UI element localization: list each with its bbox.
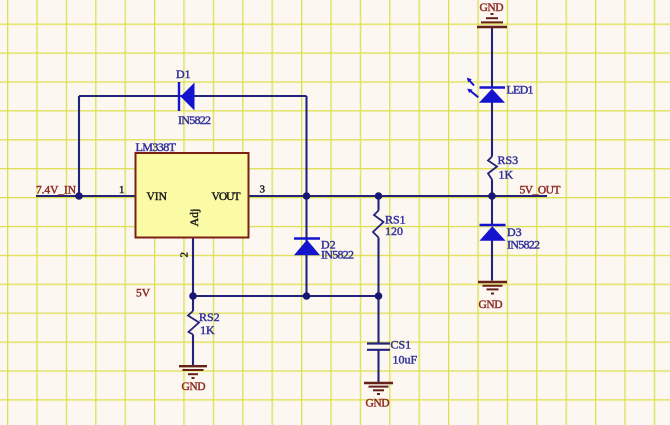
junction node at 7.4V input	[75, 192, 83, 200]
svg-text:120: 120	[385, 224, 403, 238]
svg-text:10uF: 10uF	[393, 353, 418, 367]
wire D3 to ground	[491, 241, 493, 281]
wire LED1 to RS3	[491, 103, 493, 157]
svg-text:IN5822: IN5822	[507, 238, 540, 252]
wire RS1 bottom stub	[377, 238, 379, 297]
LED1	[467, 78, 534, 103]
svg-text:LM338T: LM338T	[136, 140, 177, 154]
svg-text:7.4V_IN: 7.4V_IN	[36, 185, 77, 197]
wire top ground to LED1	[491, 28, 493, 88]
wire RS1 top stub	[377, 196, 379, 211]
svg-text:GND: GND	[366, 398, 390, 410]
wire D1 loop right vertical	[305, 96, 307, 196]
resistor RS2	[188, 310, 220, 337]
svg-text:Adj: Adj	[187, 209, 201, 227]
svg-text:3: 3	[260, 184, 266, 196]
wire D1 loop left vertical	[78, 96, 80, 196]
svg-text:VIN: VIN	[147, 191, 168, 203]
junction node D2 bottom	[303, 292, 311, 300]
junction node Adj / RS2	[189, 292, 197, 300]
svg-text:VOUT: VOUT	[212, 191, 241, 203]
svg-text:5V: 5V	[136, 288, 151, 300]
svg-text:5V_OUT: 5V_OUT	[520, 185, 561, 197]
regulator U1 LM338T body	[136, 140, 249, 238]
svg-text:LED1: LED1	[507, 83, 534, 97]
wire D1 loop top horizontal	[79, 95, 307, 97]
wire main horizontal output segment	[249, 195, 548, 197]
wire output node to D3	[491, 196, 493, 225]
svg-text:1K: 1K	[200, 323, 215, 337]
wire Adj pin 2 vertical	[192, 238, 194, 297]
svg-text:GND: GND	[479, 299, 503, 311]
wire main horizontal input segment	[36, 195, 136, 197]
svg-text:D1: D1	[176, 67, 191, 81]
junction node RS1 top	[375, 192, 383, 200]
svg-text:RS3: RS3	[498, 153, 519, 167]
diode D3	[480, 225, 541, 252]
wire CS1 top stub	[377, 296, 379, 343]
resistor RS3	[488, 153, 518, 182]
svg-text:IN5822: IN5822	[178, 113, 211, 127]
wire RS2 bottom stub to ground	[192, 335, 194, 366]
wire D2 branch vertical	[305, 196, 307, 296]
svg-text:RS2: RS2	[199, 310, 220, 324]
capacitor CS1	[367, 338, 418, 367]
junction node 5V_OUT column	[488, 192, 496, 200]
svg-text:1: 1	[119, 184, 125, 196]
resistor RS1	[373, 211, 406, 239]
svg-text:1K: 1K	[499, 168, 514, 182]
ground symbol below D3	[478, 282, 507, 311]
svg-text:2: 2	[179, 252, 191, 258]
wire CS1 bottom stub to ground	[377, 351, 379, 383]
junction node VOUT / D1 / D2	[303, 192, 311, 200]
wire RS2 top stub	[192, 296, 194, 311]
svg-text:CS1: CS1	[391, 338, 412, 352]
junction node CS1 top	[375, 292, 383, 300]
diode D2	[294, 238, 354, 262]
wire lower horizontal (Adj net)	[193, 295, 379, 297]
ground symbol top (inverted)	[477, 2, 507, 27]
ground symbol below RS2	[179, 366, 207, 393]
svg-text:IN5822: IN5822	[321, 248, 354, 262]
ground symbol below CS1	[364, 383, 393, 410]
wire RS3 to output node	[491, 180, 493, 197]
svg-text:GND: GND	[182, 381, 206, 393]
diode D1	[176, 67, 211, 127]
svg-text:GND: GND	[480, 2, 504, 14]
